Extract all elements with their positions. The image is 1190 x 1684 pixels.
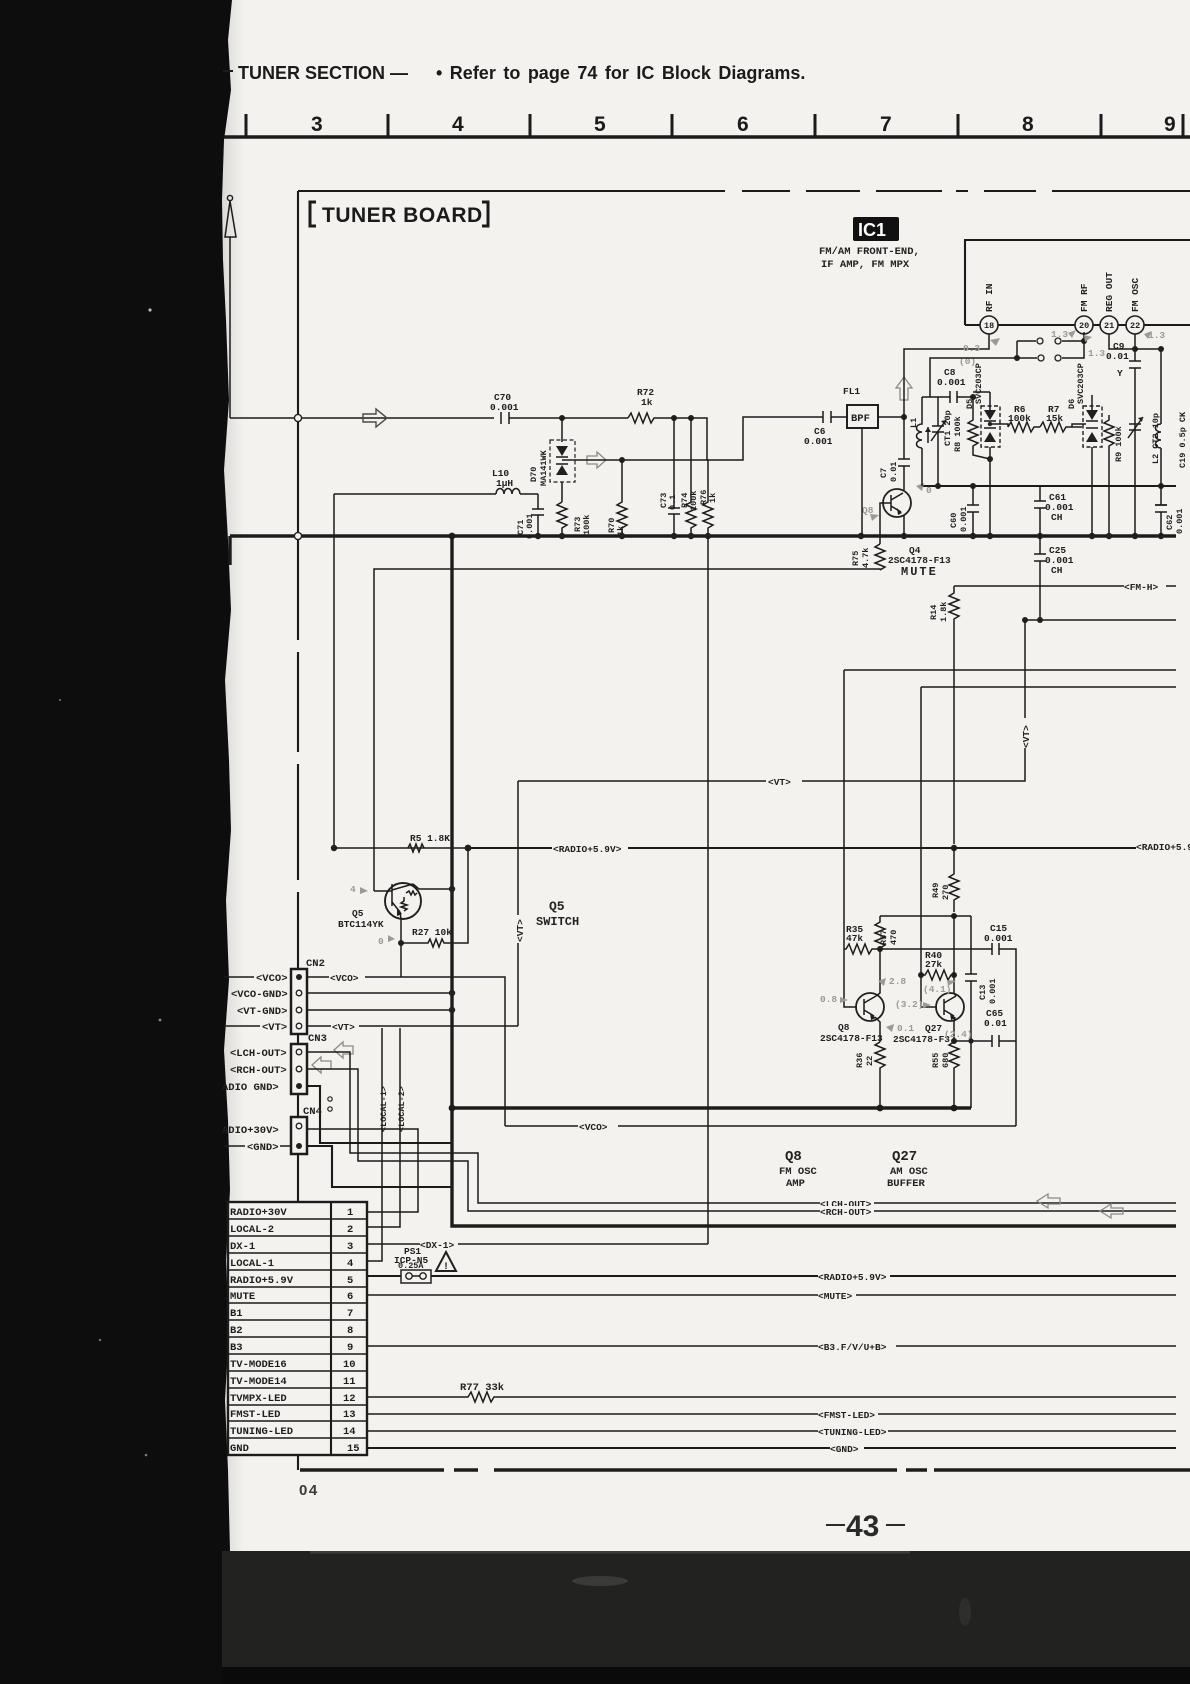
wire VT	[307, 1025, 518, 1027]
RADIO+5.9V bottom rail	[367, 1275, 1176, 1277]
svg-text:MUTE: MUTE	[901, 565, 938, 579]
transistor Q8	[856, 993, 884, 1021]
svg-text:13: 13	[343, 1409, 356, 1421]
svg-text:2: 2	[347, 1224, 353, 1236]
svg-text:20: 20	[1079, 321, 1089, 331]
svg-text:FM OSC: FM OSC	[779, 1166, 818, 1178]
svg-text:1k: 1k	[641, 397, 653, 408]
svg-text:R14: R14	[929, 605, 939, 620]
transistor Q27	[936, 993, 964, 1021]
svg-text:6: 6	[347, 1291, 353, 1303]
svg-text:LOCAL-2: LOCAL-2	[230, 1224, 274, 1236]
svg-text:100k: 100k	[689, 491, 699, 511]
svg-text:4: 4	[347, 1258, 353, 1270]
svg-text:0.01: 0.01	[984, 1018, 1007, 1029]
junction	[559, 415, 565, 421]
svg-text:<VT>: <VT>	[262, 1022, 287, 1034]
svg-text:!: !	[443, 1262, 449, 1273]
svg-text:0.001: 0.001	[959, 506, 969, 532]
svg-text:<GND>: <GND>	[830, 1444, 859, 1455]
wire switch to tank	[922, 358, 1017, 397]
svg-text:TUNING-LED: TUNING-LED	[230, 1426, 293, 1438]
gray annotation 0	[916, 483, 924, 491]
pin 22	[1126, 316, 1144, 334]
wire 460 row to BPF jog	[562, 417, 823, 460]
resistor R8	[968, 397, 990, 459]
capacitor C71	[532, 494, 544, 536]
CN2 left stubs	[224, 977, 260, 1026]
capacitor C73	[668, 418, 680, 536]
svg-text:RADIO+5.9V: RADIO+5.9V	[230, 1275, 294, 1287]
svg-text:ADIO GND>: ADIO GND>	[222, 1082, 279, 1094]
IC1 outline box	[965, 240, 1190, 325]
capacitor C13	[965, 916, 977, 1108]
svg-text:0: 0	[378, 936, 384, 947]
svg-text:<RCH-OUT>: <RCH-OUT>	[230, 1065, 287, 1077]
svg-text:(3.2): (3.2)	[895, 999, 924, 1010]
svg-text:ADIO+30V>: ADIO+30V>	[222, 1125, 279, 1137]
pin 21	[1100, 316, 1118, 334]
svg-text:BUFFER: BUFFER	[887, 1178, 926, 1190]
svg-text:9: 9	[347, 1342, 353, 1354]
svg-text:22: 22	[865, 1056, 875, 1066]
varactor D6	[1083, 406, 1102, 447]
svg-text:RADIO+30V: RADIO+30V	[230, 1207, 287, 1219]
svg-text:15: 15	[347, 1443, 360, 1455]
svg-text:RF IN: RF IN	[984, 283, 995, 312]
scan smudges on bottom strip	[572, 1576, 628, 1586]
wire GND thick	[307, 1146, 452, 1187]
varactor D5	[981, 406, 1000, 447]
thick collector feed line	[452, 536, 1176, 1226]
svg-text:<RCH-OUT>: <RCH-OUT>	[820, 1207, 872, 1218]
svg-text:680: 680	[941, 1053, 951, 1068]
svg-text:7: 7	[880, 113, 892, 136]
arrows at CN3	[334, 1042, 353, 1058]
svg-text:0.3: 0.3	[963, 343, 980, 354]
long rail 670	[844, 669, 1176, 671]
svg-text:4: 4	[452, 113, 464, 136]
svg-text:IC1: IC1	[858, 220, 886, 240]
svg-text:270: 270	[941, 885, 951, 900]
resistor R14	[949, 586, 959, 844]
svg-text:<DX-1>: <DX-1>	[420, 1240, 455, 1251]
svg-text:18: 18	[984, 321, 994, 331]
capacitor C6	[823, 411, 847, 423]
svg-text:R77 33k: R77 33k	[460, 1382, 504, 1394]
resistor R5	[408, 844, 424, 852]
resistor R74	[686, 418, 696, 536]
VCO lower rail	[505, 1125, 1016, 1127]
VT rail upper	[1025, 619, 1176, 621]
svg-text:0.1: 0.1	[897, 1023, 914, 1034]
pin 20	[1075, 316, 1093, 334]
svg-text:<GND>: <GND>	[247, 1142, 279, 1154]
svg-text:TV-MODE14: TV-MODE14	[230, 1376, 287, 1388]
svg-text:1.8k: 1.8k	[939, 602, 949, 622]
main ground bus	[230, 534, 1176, 537]
bus junctions	[535, 533, 541, 539]
inductor L2	[1156, 424, 1162, 486]
svg-text:CH: CH	[1051, 512, 1063, 523]
bus left stub	[228, 536, 231, 565]
svg-text:1.3: 1.3	[1088, 348, 1105, 359]
svg-text:0.001: 0.001	[490, 402, 519, 413]
header dash	[223, 70, 233, 72]
svg-text:04: 04	[299, 1482, 319, 1499]
ruler base line	[224, 135, 1190, 139]
svg-text:TUNER SECTION —: TUNER SECTION —	[238, 63, 408, 83]
thick osc ground link	[452, 1106, 971, 1109]
svg-text:B2: B2	[230, 1325, 243, 1337]
svg-text:<MUTE>: <MUTE>	[818, 1291, 853, 1302]
IC1 label block	[853, 217, 899, 241]
TUNING-LED rail	[367, 1430, 1176, 1432]
wire RCH-OUT	[307, 1069, 1176, 1211]
capacitor C25	[1034, 536, 1046, 620]
up arrow	[896, 377, 912, 400]
svg-text:1: 1	[347, 1207, 353, 1219]
wire to R72	[562, 417, 628, 419]
svg-text:0.1: 0.1	[668, 495, 678, 510]
svg-text:0.01: 0.01	[889, 462, 899, 482]
svg-text:6: 6	[737, 113, 749, 136]
osc top link	[880, 915, 971, 917]
wire 687 feed down to Q27	[921, 687, 937, 1007]
svg-text:R9 100k: R9 100k	[1114, 426, 1124, 462]
svg-text:<LOCAL-1>: <LOCAL-1>	[379, 1086, 389, 1132]
svg-text:7: 7	[347, 1308, 353, 1320]
junction	[671, 415, 677, 421]
svg-text:0.001: 0.001	[937, 377, 966, 388]
svg-text:<VT>: <VT>	[332, 1022, 355, 1033]
board title bracket right	[482, 202, 488, 226]
resistor R36	[875, 1042, 885, 1107]
resistor R9	[1104, 415, 1114, 533]
TVMPX-LED rail with R77	[367, 1392, 1176, 1402]
svg-text:AM OSC: AM OSC	[890, 1166, 929, 1178]
svg-text:0.001: 0.001	[1175, 508, 1185, 534]
white speckles in black band	[148, 308, 151, 311]
wire BPF out	[878, 416, 904, 418]
resistor R40	[921, 970, 955, 980]
svg-text:<FM-H>: <FM-H>	[1124, 582, 1159, 593]
tuner board border top	[298, 190, 1190, 192]
capacitor C62	[1155, 504, 1167, 506]
svg-text:0.001: 0.001	[984, 933, 1013, 944]
tuner board border left (dashed)	[297, 191, 299, 1470]
transistor Q5 BTC114YK	[385, 883, 421, 919]
svg-text:R55: R55	[931, 1053, 941, 1068]
capacitor C70	[501, 412, 562, 424]
svg-text:0.01: 0.01	[1106, 351, 1129, 362]
svg-text:AMP: AMP	[786, 1178, 805, 1190]
wire mute row	[374, 569, 880, 891]
svg-text:10: 10	[343, 1359, 356, 1371]
trimmer CT2	[1129, 424, 1141, 430]
DX-1 rail	[367, 1243, 708, 1245]
wire L2 top	[1135, 349, 1161, 424]
svg-text:DX-1: DX-1	[230, 1241, 255, 1253]
RF bus	[922, 485, 1176, 487]
svg-text:11: 11	[343, 1376, 356, 1388]
svg-text:<B3.F/V/U+B>: <B3.F/V/U+B>	[818, 1342, 887, 1353]
svg-text:Q5: Q5	[352, 908, 364, 919]
svg-text:4.7k: 4.7k	[861, 548, 871, 568]
svg-text:TUNER BOARD: TUNER BOARD	[322, 204, 483, 227]
svg-text:CN3: CN3	[308, 1033, 327, 1045]
svg-text:9: 9	[1164, 113, 1176, 136]
board-edge node circles	[294, 414, 301, 421]
wire L10 left leg down	[333, 494, 335, 848]
svg-text:2SC4178-F3: 2SC4178-F3	[893, 1034, 950, 1045]
svg-text:(2.4): (2.4)	[944, 1029, 973, 1040]
antenna ANT	[227, 195, 232, 200]
wire RF IN path	[904, 334, 989, 417]
svg-text:SVC203CP: SVC203CP	[974, 363, 984, 404]
wire D70 bottom to R73	[561, 482, 563, 502]
resistor R35	[844, 944, 880, 954]
svg-text:BPF: BPF	[851, 413, 870, 425]
svg-text:47k: 47k	[846, 933, 863, 944]
FM-H rail	[954, 585, 1176, 587]
svg-text:R8 100k: R8 100k	[953, 416, 963, 452]
svg-text:(4.1): (4.1)	[923, 984, 952, 995]
wire RADIO GND	[307, 1086, 452, 1143]
svg-text:IF AMP, FM MPX: IF AMP, FM MPX	[821, 259, 910, 271]
key circles	[328, 1097, 332, 1101]
svg-text:C7: C7	[879, 468, 889, 478]
svg-text:FM RF: FM RF	[1079, 283, 1090, 312]
wire antenna to RF row	[230, 417, 494, 419]
FMST-LED rail	[367, 1413, 1176, 1415]
svg-text:<VT>: <VT>	[515, 919, 526, 942]
svg-text:GND: GND	[230, 1443, 249, 1455]
svg-text:C13: C13	[978, 985, 988, 1000]
svg-text:12: 12	[343, 1393, 356, 1405]
svg-text:8: 8	[347, 1325, 353, 1337]
svg-text:FM OSC: FM OSC	[1130, 277, 1141, 312]
svg-text:TVMPX-LED: TVMPX-LED	[230, 1393, 287, 1405]
svg-text:<VCO-GND>: <VCO-GND>	[231, 989, 288, 1001]
svg-text:C19 0.5p CK: C19 0.5p CK	[1178, 411, 1188, 468]
svg-text:C60: C60	[949, 513, 959, 528]
junction	[688, 415, 694, 421]
resistor R75	[875, 544, 885, 570]
MUTE rail	[367, 1294, 1176, 1296]
svg-text:3: 3	[311, 113, 323, 136]
svg-text:<FMST-LED>: <FMST-LED>	[818, 1410, 875, 1421]
wire BPF bottom to bus	[861, 428, 863, 536]
local-2 vertical	[367, 1028, 400, 1227]
svg-text:R57: R57	[879, 930, 889, 945]
svg-text:1k: 1k	[708, 493, 718, 503]
svg-text:<VCO>: <VCO>	[579, 1122, 608, 1133]
svg-text:0.001: 0.001	[988, 978, 998, 1004]
capacitor C60	[967, 486, 979, 536]
svg-text:<VCO>: <VCO>	[256, 973, 288, 985]
svg-text:LOCAL-1: LOCAL-1	[230, 1258, 274, 1270]
svg-text:0.8: 0.8	[820, 994, 837, 1005]
local-1 vertical	[367, 1028, 382, 1261]
svg-text:8: 8	[1022, 113, 1034, 136]
svg-text:5: 5	[347, 1275, 353, 1287]
svg-text:Q27: Q27	[892, 1149, 917, 1165]
svg-text:3: 3	[347, 1241, 353, 1253]
trimmer CT1	[932, 397, 944, 486]
wire pin22 / C9 node	[1134, 334, 1136, 361]
svg-text:470: 470	[889, 930, 899, 945]
resistor R73	[557, 502, 567, 536]
VT feed vertical	[517, 781, 519, 1026]
resistor R70	[619, 457, 625, 463]
svg-text:L2 CT2 10p: L2 CT2 10p	[1151, 413, 1161, 464]
wire RADIO+30V	[307, 1129, 418, 1212]
svg-text:Q27: Q27	[925, 1023, 942, 1034]
wire VCO	[307, 977, 505, 1126]
svg-text:<RADIO+5.9: <RADIO+5.9	[1136, 842, 1190, 853]
svg-text:<RADIO+5.9V>: <RADIO+5.9V>	[553, 844, 622, 855]
resistor R49	[949, 848, 959, 912]
svg-text:21: 21	[1104, 321, 1114, 331]
switch contact rows	[1016, 341, 1018, 358]
svg-text:BTC114YK: BTC114YK	[338, 919, 384, 930]
svg-text:D70: D70	[529, 467, 539, 482]
svg-text:B1: B1	[230, 1308, 243, 1320]
wire VCO-GND	[307, 992, 452, 994]
pin 18	[980, 316, 998, 334]
warning triangle	[436, 1252, 456, 1271]
svg-text:REG OUT: REG OUT	[1104, 272, 1115, 312]
wire VT-GND	[307, 1009, 452, 1011]
svg-text:<TUNING-LED>: <TUNING-LED>	[818, 1427, 887, 1438]
wire 670 feed down to Q8 base	[844, 670, 857, 1007]
svg-text:FL1: FL1	[843, 386, 860, 397]
tuner board border bottom (dashed)	[300, 1468, 1190, 1471]
svg-text:R75: R75	[851, 551, 861, 566]
svg-text:4: 4	[350, 884, 356, 895]
VT vertical link	[518, 620, 1025, 781]
svg-text:27k: 27k	[925, 959, 942, 970]
transistor Q4	[883, 489, 911, 517]
gray annotations	[878, 978, 886, 986]
svg-text:Q8: Q8	[785, 1149, 802, 1165]
svg-text:MA141WK: MA141WK	[539, 449, 549, 486]
svg-text:<LCH-OUT>: <LCH-OUT>	[230, 1048, 287, 1060]
svg-text:TV-MODE16: TV-MODE16	[230, 1359, 287, 1371]
svg-text:MUTE: MUTE	[230, 1291, 255, 1303]
long rail 687	[921, 686, 1176, 688]
LCH-OUT label and arrows	[820, 1197, 874, 1208]
resistor R55	[949, 1041, 959, 1108]
svg-text:<LOCAL-2>: <LOCAL-2>	[397, 1086, 407, 1132]
capacitor C19	[1155, 486, 1167, 536]
svg-text:22: 22	[1130, 321, 1140, 331]
svg-text:2.8: 2.8	[889, 976, 906, 987]
wire pin21 stub	[1109, 334, 1135, 349]
svg-text:B3: B3	[230, 1342, 243, 1354]
svg-text:<VCO>: <VCO>	[330, 973, 359, 984]
ragged edge of black scan band	[222, 0, 232, 1551]
svg-text:0: 0	[926, 485, 932, 496]
wire LCH-OUT	[307, 1052, 1176, 1203]
svg-text:SWITCH: SWITCH	[536, 915, 579, 929]
resistor R57	[875, 916, 885, 949]
svg-text:1µH: 1µH	[496, 478, 513, 489]
svg-text:CN2: CN2	[306, 958, 325, 970]
connector pin table	[228, 1202, 367, 1455]
svg-text:100k: 100k	[582, 515, 592, 535]
svg-text:5: 5	[594, 113, 606, 136]
signal arrow	[363, 409, 387, 427]
DX-1 feed vertical	[707, 536, 709, 1244]
arrow on 460 row	[587, 452, 606, 468]
svg-text:0.001: 0.001	[804, 436, 833, 447]
resistor R72	[628, 413, 662, 423]
svg-text:<VT>: <VT>	[1021, 725, 1032, 748]
capacitor C7	[898, 417, 910, 490]
svg-text:14: 14	[343, 1426, 356, 1438]
bottom scan strips	[222, 1551, 1190, 1667]
dual diode D70 MA141WK	[561, 418, 563, 442]
svg-text:15k: 15k	[1046, 413, 1063, 424]
board title bracket left	[310, 202, 316, 226]
svg-text:R27 10k: R27 10k	[412, 927, 452, 938]
svg-text:FMST-LED: FMST-LED	[230, 1409, 280, 1421]
B3 rail	[367, 1345, 1176, 1347]
svg-text:FM/AM FRONT-END,: FM/AM FRONT-END,	[819, 246, 920, 258]
svg-text:C62: C62	[1165, 515, 1175, 530]
svg-text:<RADIO+5.9V>: <RADIO+5.9V>	[818, 1272, 887, 1283]
svg-text:Q5: Q5	[549, 899, 565, 914]
resistor R27	[401, 848, 468, 947]
ruler ticks	[246, 114, 1183, 137]
svg-text:<VT>: <VT>	[768, 777, 791, 788]
GND rail	[367, 1447, 1176, 1449]
svg-text:Y: Y	[1117, 368, 1123, 379]
svg-text:R49: R49	[931, 883, 941, 898]
svg-text:<VT-GND>: <VT-GND>	[237, 1006, 287, 1018]
svg-text:• Refer to page 74 for IC Bloc: • Refer to page 74 for IC Block Diagrams…	[436, 63, 805, 83]
svg-text:R5 1.8K: R5 1.8K	[410, 833, 450, 844]
svg-text:CH: CH	[1051, 565, 1063, 576]
svg-text:SVC203CP: SVC203CP	[1076, 363, 1086, 404]
RADIO+5.9V rail	[334, 847, 468, 849]
resistor R76	[703, 460, 713, 536]
svg-text:R36: R36	[855, 1053, 865, 1068]
svg-text:Q8: Q8	[838, 1022, 850, 1033]
svg-text:CT1 20p: CT1 20p	[943, 410, 953, 446]
wire jog down to 460 row	[662, 418, 707, 460]
svg-text:2SC4178-F13: 2SC4178-F13	[820, 1033, 883, 1044]
capacitor C61	[1034, 486, 1046, 536]
svg-text:43: 43	[846, 1510, 879, 1543]
